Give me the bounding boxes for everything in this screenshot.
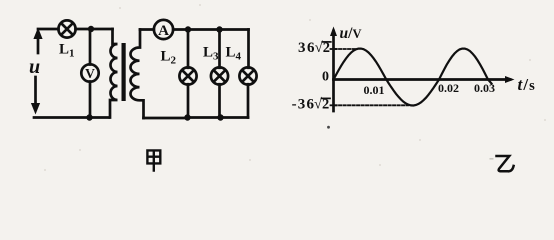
graph y-axis u/V [332,31,335,111]
wire L3 branch [218,30,221,118]
svg-text:u/V: u/V [340,25,362,42]
faint speckles [44,4,546,171]
svg-text:36: 36 [298,40,316,56]
wire top L3 node to right corner [220,28,249,31]
svg-text:0.03: 0.03 [474,81,495,95]
label yi (graph figure caption) [497,156,514,171]
source down arrowhead [31,103,40,115]
svg-text:L3: L3 [203,45,219,63]
wire L2 branch [187,30,190,118]
node junction top of L3 branch [216,26,222,32]
svg-text:-36: -36 [292,96,316,112]
svg-text:V: V [85,66,95,81]
source up arrow [37,33,40,53]
svg-text:0.01: 0.01 [364,83,385,97]
svg-text:0.02: 0.02 [438,81,459,95]
y tick at -36sqrt2 [331,104,337,106]
wire ammeter to L2 node [173,28,188,31]
svg-text:L1: L1 [59,42,75,60]
wire bottom-left horizontal [34,116,109,119]
node junction bottom of voltmeter branch [86,114,92,120]
dashed guide to negative trough -36sqrt2 [335,104,409,106]
source down arrow [34,77,37,108]
wire top L2 node to L3 node [188,28,220,31]
lamp L4 [239,67,256,84]
faint mark left of yi [490,158,494,160]
svg-text:L2: L2 [161,49,177,67]
node junction bottom of L3 branch [217,114,223,120]
transformer primary winding [110,29,118,118]
stray ink speck [327,126,330,129]
wire bottom right loop [144,116,249,119]
lamp L1 [58,20,75,37]
sine curve of u [334,49,492,106]
lamp L3 [211,67,228,84]
node junction bottom of L2 branch [184,114,190,120]
transformer secondary winding [131,30,144,119]
wire top-left horizontal (source to L1 to V-node to transformer primary) [38,28,113,31]
svg-text:L4: L4 [226,45,242,63]
label jia (circuit figure caption) [147,150,160,170]
graph x-axis arrowhead [505,76,515,83]
source up arrowhead [33,28,42,40]
label 36sqrt2 [298,40,330,56]
graph x-axis t/s [334,78,511,81]
transformer core [122,43,126,101]
graph y-axis arrowhead [330,27,337,37]
wire voltmeter branch upper [89,29,92,65]
wire voltmeter branch lower [89,82,92,118]
ammeter A [154,20,173,39]
svg-text:0: 0 [322,69,329,84]
node junction top of voltmeter branch [88,26,94,32]
svg-text:u: u [29,56,40,78]
dashed guide to positive peak 36sqrt2 [335,48,357,50]
wire L4 branch [247,30,250,118]
label -36sqrt2 [292,96,330,112]
svg-text:t/s: t/s [518,75,536,94]
svg-text:A: A [158,23,169,39]
y tick at 36sqrt2 [331,48,337,50]
lamp L2 [179,67,196,84]
wire secondary top to ammeter [140,28,154,31]
voltmeter V [81,64,98,81]
node junction top of L2 branch [185,26,191,32]
